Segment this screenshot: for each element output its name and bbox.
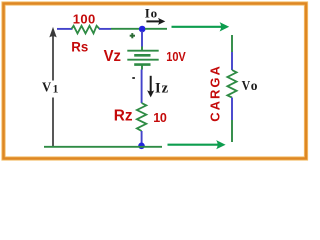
wire (141, 131, 143, 144)
resistor Rz (137, 103, 146, 131)
svg-text:Iz: Iz (155, 80, 169, 96)
current arrow Io (146, 18, 165, 25)
svg-text:V: V (242, 79, 251, 94)
wire with arrow to load (bottom) (168, 140, 226, 149)
wire (111, 28, 140, 30)
wire (44, 146, 162, 148)
svg-text:100: 100 (73, 12, 96, 27)
polarity - (132, 77, 135, 79)
wire (231, 52, 233, 70)
svg-text:Rz: Rz (114, 108, 133, 125)
current arrow Iz (147, 76, 154, 98)
node junction bottom (138, 143, 145, 150)
svg-text:Io: Io (145, 5, 158, 20)
resistor Rs (72, 26, 100, 34)
wire (231, 98, 233, 121)
wire (145, 28, 167, 30)
wire (231, 120, 233, 142)
battery Vz 10V (127, 51, 158, 65)
wire (141, 65, 143, 70)
polarity + (130, 33, 135, 38)
wire (141, 31, 143, 47)
load resistor CARGA (227, 70, 236, 98)
voltage arrow V1 (49, 27, 56, 147)
wire (99, 28, 111, 30)
wire (231, 35, 233, 52)
wire (57, 28, 73, 30)
svg-text:10V: 10V (166, 49, 186, 64)
wire with arrow to load (top) (172, 22, 230, 31)
svg-text:CARGA: CARGA (208, 64, 223, 122)
svg-text:Rs: Rs (71, 39, 88, 55)
node junction top (139, 26, 146, 33)
svg-text:o: o (251, 78, 258, 93)
svg-text:10: 10 (153, 111, 167, 125)
svg-text:Vz: Vz (104, 48, 122, 65)
wire (141, 47, 143, 51)
wire (141, 70, 143, 104)
svg-text:V: V (42, 81, 51, 96)
svg-text:1: 1 (53, 83, 59, 95)
